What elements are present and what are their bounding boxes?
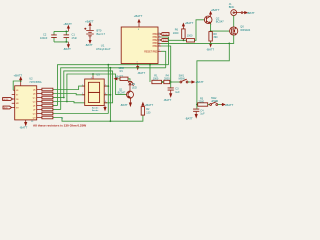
svg-text:-BATT: -BATT bbox=[20, 126, 28, 129]
node tap r4 bbox=[66, 101, 68, 103]
wire arch A bbox=[58, 65, 169, 106]
svg-text:+BATT: +BATT bbox=[246, 11, 255, 15]
wire row1 to display pin1 left bbox=[53, 86, 85, 89]
svg-text:3: 3 bbox=[91, 78, 92, 80]
wire J1 to Q0 bbox=[233, 16, 235, 27]
svg-text:C2: C2 bbox=[43, 33, 47, 37]
svg-text:1: 1 bbox=[82, 85, 83, 87]
label MOSI on PB0 bbox=[160, 33, 169, 36]
svg-text:C1: C1 bbox=[72, 33, 76, 37]
capacitor C2 bbox=[40, 33, 57, 40]
power -BATT below Q1 bbox=[120, 98, 132, 107]
node gate bbox=[210, 30, 212, 32]
node arch B drop bbox=[110, 67, 112, 69]
svg-text:MSW: MSW bbox=[179, 78, 186, 81]
pin PB1 U1 bbox=[158, 36, 161, 38]
power +BATT above U1 bbox=[134, 14, 143, 27]
node drain join bbox=[228, 43, 230, 45]
wire R4 to SW1 bbox=[170, 81, 180, 83]
IC U2 74HC595 bbox=[12, 77, 42, 123]
svg-text:100nF: 100nF bbox=[40, 36, 48, 40]
7-seg display U3 bbox=[82, 73, 107, 113]
connector J1 BNC bbox=[229, 2, 243, 16]
power +BATT above U2 bbox=[14, 73, 23, 81]
wire top rail C1 C2 bbox=[54, 31, 68, 42]
node display top tap bbox=[92, 73, 94, 75]
svg-text:7: 7 bbox=[159, 38, 160, 40]
svg-text:U3: U3 bbox=[96, 73, 100, 77]
node R6 bottom bbox=[183, 39, 185, 41]
power -BATT at R8/PB3 node bbox=[206, 43, 214, 51]
svg-text:BNC: BNC bbox=[229, 5, 235, 9]
svg-text:6: 6 bbox=[105, 93, 106, 95]
svg-text:+BATT: +BATT bbox=[225, 103, 234, 107]
switch SW2 bbox=[210, 97, 221, 105]
svg-text:130: 130 bbox=[146, 111, 151, 114]
node PB3 R8 bbox=[210, 43, 212, 45]
svg-text:1000: 1000 bbox=[153, 77, 159, 80]
wire row5 to arch1 bbox=[53, 105, 58, 107]
power +BATT above R2 bbox=[142, 103, 154, 107]
capacitor C4 bbox=[193, 105, 205, 116]
svg-text:3: 3 bbox=[159, 44, 160, 46]
resistor R1 led bbox=[118, 67, 130, 81]
wire display top pin bbox=[92, 74, 94, 76]
wire PB4 to sw chain bbox=[161, 46, 171, 82]
svg-text:7: 7 bbox=[105, 85, 106, 87]
svg-text:MOSI: MOSI bbox=[3, 99, 8, 101]
pin RESET/PB5 U1 bbox=[158, 50, 161, 52]
op-amp U1 ATtiny13A-P body bbox=[96, 27, 158, 64]
svg-text:6: 6 bbox=[159, 35, 160, 37]
wire arch D to Q1 base bbox=[67, 74, 127, 102]
svg-text:PB4: PB4 bbox=[153, 45, 158, 48]
pin GND U1 bottom bbox=[137, 64, 139, 67]
node arch A drop bbox=[107, 64, 109, 66]
power +BATT above Q2 bbox=[210, 8, 220, 16]
svg-text:+BATT: +BATT bbox=[195, 80, 204, 84]
wire row3 to arch3 bbox=[53, 97, 64, 99]
power +BATT feeding R1 led bbox=[114, 74, 123, 80]
svg-text:U2: U2 bbox=[29, 77, 33, 81]
node bottom rail junction bbox=[65, 41, 67, 43]
pin PB0 U1 bbox=[158, 33, 161, 35]
node u2 top bbox=[20, 80, 22, 82]
svg-text:Anode: Anode bbox=[92, 109, 99, 112]
resistor R7 bbox=[187, 20, 205, 42]
svg-text:BC547: BC547 bbox=[118, 92, 126, 95]
capacitor C1 bbox=[64, 33, 78, 40]
svg-text:4: 4 bbox=[137, 61, 138, 63]
svg-text:U1: U1 bbox=[101, 43, 105, 47]
label MOSI at U2 bbox=[3, 98, 13, 101]
wire sw1 feed bbox=[149, 65, 151, 82]
resistor R2 bbox=[141, 107, 151, 116]
wire Q2 collector to gate node bbox=[211, 24, 230, 32]
wire PB2 to R6/R7 bbox=[169, 39, 187, 41]
power -BATT below battery bbox=[85, 38, 93, 47]
power +BATT right of SW1 bbox=[190, 80, 204, 84]
node arch A sw1 tap bbox=[149, 64, 151, 66]
resistor R6 bbox=[173, 26, 185, 40]
svg-text:+BATT: +BATT bbox=[14, 73, 23, 77]
wire row6 to arch2 bbox=[53, 109, 61, 111]
label SCK on PB2 bbox=[160, 39, 168, 42]
svg-text:1uF: 1uF bbox=[200, 113, 205, 116]
svg-text:-BATT: -BATT bbox=[120, 103, 128, 107]
wire row2 to display pin2 left bbox=[53, 94, 85, 95]
svg-text:RESET/PB5: RESET/PB5 bbox=[144, 50, 158, 53]
svg-text:8: 8 bbox=[138, 29, 139, 31]
wire PB3 long run bbox=[161, 43, 229, 104]
svg-text:Anode: Anode bbox=[92, 107, 99, 110]
wire drop to pin2 right and bottom bbox=[104, 68, 110, 121]
node tap r3 bbox=[63, 97, 65, 99]
svg-text:1000: 1000 bbox=[187, 35, 193, 38]
wire arch B bbox=[61, 68, 166, 110]
resistor R3 bbox=[198, 98, 210, 107]
node latch bbox=[196, 104, 198, 106]
power +BATT above caps bbox=[63, 22, 72, 31]
svg-text:+BATT: +BATT bbox=[211, 8, 220, 12]
wire PB1 to bus bbox=[161, 37, 169, 65]
transistor Q2 bbox=[204, 16, 224, 24]
svg-text:Q0: Q0 bbox=[240, 24, 244, 28]
wire arch C bbox=[64, 71, 113, 103]
wire PB5 to bus bbox=[161, 51, 166, 68]
battery BT0 bbox=[84, 27, 105, 38]
wire Q0 drain down to node bbox=[229, 35, 233, 43]
svg-text:ATtiny13A-P: ATtiny13A-P bbox=[96, 47, 111, 51]
svg-text:1: 1 bbox=[159, 50, 160, 52]
svg-text:4: 4 bbox=[105, 101, 106, 103]
svg-text:-BATT: -BATT bbox=[137, 71, 145, 75]
svg-text:47uF: 47uF bbox=[72, 37, 78, 40]
resistor R8 bbox=[209, 32, 218, 44]
svg-text:2000: 2000 bbox=[199, 100, 205, 103]
svg-text:5: 5 bbox=[159, 32, 160, 34]
label SCK at U2 bbox=[3, 106, 12, 109]
svg-text:74HC595A: 74HC595A bbox=[29, 81, 42, 84]
resistor R4 bbox=[164, 74, 170, 83]
resistor R1 sw bbox=[152, 74, 162, 83]
power +BATT above battery bbox=[85, 19, 94, 27]
svg-text:BT0: BT0 bbox=[97, 28, 102, 32]
svg-text:+BATT: +BATT bbox=[85, 19, 94, 23]
svg-text:+BATT: +BATT bbox=[115, 74, 124, 78]
svg-text:-BATT: -BATT bbox=[185, 117, 193, 121]
node top rail junction bbox=[65, 31, 67, 33]
svg-text:1000: 1000 bbox=[173, 32, 179, 35]
power -BATT below U2 bbox=[20, 122, 28, 129]
power -BATT below C4 bbox=[185, 114, 198, 120]
node between R1 R4 bbox=[162, 81, 164, 83]
svg-text:+BATT: +BATT bbox=[134, 14, 143, 18]
power -BATT below caps bbox=[63, 42, 71, 51]
svg-text:All these resistors is 130 Ohm: All these resistors is 130 Ohm 0.25W bbox=[33, 123, 86, 127]
svg-text:IRF9024: IRF9024 bbox=[240, 28, 251, 32]
svg-text:2000: 2000 bbox=[164, 77, 170, 80]
node C3 tap bbox=[170, 81, 172, 83]
resistor array R10-R17 bbox=[42, 88, 53, 119]
wire +BATT wrap to U2 left pin bbox=[13, 81, 21, 90]
svg-text:390: 390 bbox=[213, 36, 218, 39]
power +BATT above R6 bbox=[182, 21, 193, 26]
svg-text:uPWR: uPWR bbox=[211, 100, 218, 103]
svg-text:+BATT: +BATT bbox=[185, 21, 194, 25]
wire drop to pin1 right and bottom bbox=[104, 65, 108, 114]
transistor Q0 MOSFET bbox=[230, 24, 251, 35]
svg-text:+BATT: +BATT bbox=[145, 103, 154, 107]
power -BATT below C3 bbox=[164, 94, 172, 103]
svg-text:-BATT: -BATT bbox=[63, 47, 71, 51]
power +BATT right of J1 bbox=[243, 11, 255, 15]
svg-text:-BATT: -BATT bbox=[206, 48, 214, 52]
pin PB2 U1 bbox=[158, 39, 161, 41]
svg-text:Bat 3.7: Bat 3.7 bbox=[97, 32, 106, 36]
wire row7 bottom run bbox=[53, 113, 108, 115]
svg-text:BC547: BC547 bbox=[216, 20, 224, 24]
switch SW1 bbox=[179, 75, 191, 83]
svg-text:-BATT: -BATT bbox=[164, 98, 172, 102]
pin PB4 U1 bbox=[158, 45, 161, 47]
svg-text:+BATT: +BATT bbox=[63, 22, 72, 26]
wire row8 bottom run bbox=[53, 115, 143, 121]
pin PB3 U1 bbox=[158, 42, 161, 44]
capacitor C3 bbox=[168, 82, 180, 94]
diode D1 LED bbox=[128, 82, 137, 92]
wire row4 to display pin3 left bbox=[53, 102, 85, 103]
svg-text:MOSI: MOSI bbox=[163, 34, 168, 36]
power -BATT below U1 bbox=[137, 67, 146, 75]
power +BATT right of SW2 bbox=[221, 103, 234, 107]
svg-text:1uF: 1uF bbox=[175, 91, 180, 94]
wire R1 R4 bbox=[162, 81, 164, 83]
svg-text:LED: LED bbox=[132, 86, 137, 89]
svg-text:-BATT: -BATT bbox=[85, 43, 93, 47]
svg-text:2: 2 bbox=[82, 93, 83, 95]
transistor Q1 bbox=[118, 89, 134, 99]
